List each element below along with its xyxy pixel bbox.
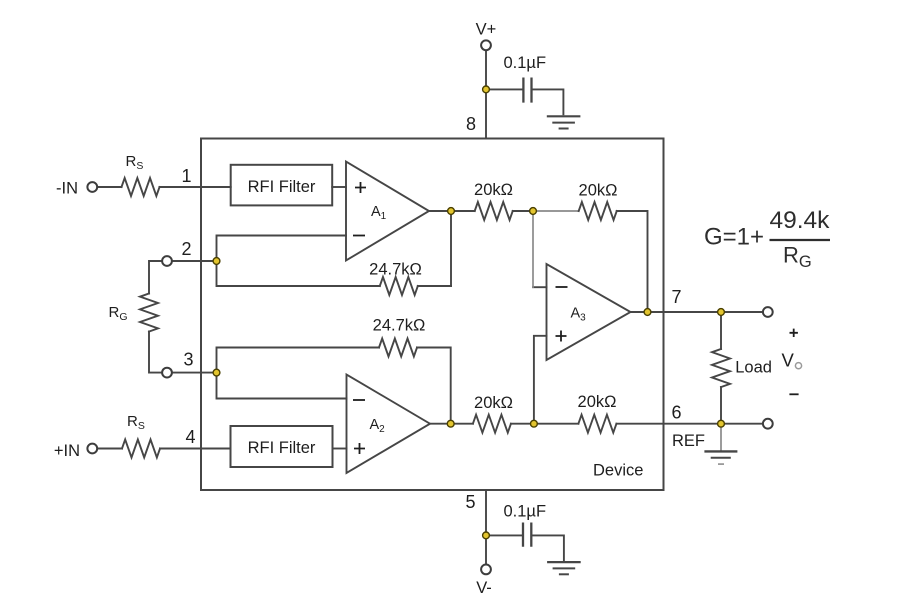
- svg-text:+IN: +IN: [54, 442, 80, 460]
- svg-text:3: 3: [183, 350, 193, 370]
- svg-text:20kΩ: 20kΩ: [474, 181, 513, 199]
- svg-text:24.7kΩ: 24.7kΩ: [369, 261, 422, 279]
- svg-text:REF: REF: [672, 432, 705, 450]
- svg-text:RFI Filter: RFI Filter: [248, 178, 316, 196]
- svg-text:24.7kΩ: 24.7kΩ: [373, 317, 426, 335]
- svg-text:V-: V-: [476, 579, 492, 597]
- svg-text:V: V: [782, 350, 795, 371]
- svg-text:0.1µF: 0.1µF: [504, 54, 547, 72]
- svg-text:G=1+: G=1+: [704, 224, 764, 251]
- svg-text:20kΩ: 20kΩ: [578, 393, 617, 411]
- svg-text:5: 5: [465, 492, 475, 512]
- svg-text:20kΩ: 20kΩ: [579, 182, 618, 200]
- svg-text:2: 2: [181, 239, 191, 259]
- svg-text:V+: V+: [476, 21, 497, 39]
- svg-text:0.1µF: 0.1µF: [504, 503, 547, 521]
- svg-text:Device: Device: [593, 462, 643, 480]
- svg-text:8: 8: [466, 114, 476, 134]
- svg-text:-IN: -IN: [56, 180, 78, 198]
- svg-text:20kΩ: 20kΩ: [474, 394, 513, 412]
- svg-text:RFI Filter: RFI Filter: [248, 439, 316, 457]
- svg-text:4: 4: [185, 427, 195, 447]
- svg-text:7: 7: [671, 287, 681, 307]
- svg-text:Load: Load: [735, 359, 772, 377]
- svg-text:1: 1: [181, 166, 191, 186]
- svg-text:49.4k: 49.4k: [770, 207, 831, 234]
- svg-text:6: 6: [671, 403, 681, 423]
